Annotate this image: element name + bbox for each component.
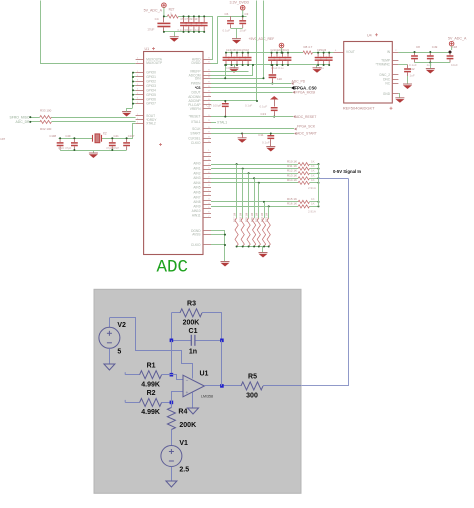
wire R3 left vertical (171, 313, 173, 341)
svg-text:C41: C41 (114, 134, 120, 138)
svg-text:C97 100pF: C97 100pF (207, 104, 222, 108)
svg-text:AIN9: AIN9 (193, 205, 200, 209)
svg-text:AIN2: AIN2 (193, 171, 200, 175)
capacitor C41 47pF (109, 138, 116, 150)
svg-text:XTAL2: XTAL2 (146, 122, 156, 126)
wire ADCOM up (211, 65, 253, 76)
svg-text:R12 1K: R12 1K (287, 168, 297, 172)
svg-text:3.3V_DVDD: 3.3V_DVDD (230, 0, 250, 4)
capacitor C10 (196, 16, 203, 32)
wire REF bus (226, 52, 303, 54)
svg-text:R32 100: R32 100 (40, 127, 52, 131)
wire noninverting input (172, 392, 183, 403)
svg-text:1K: 1K (311, 197, 315, 201)
U4 pin NC (392, 83, 398, 85)
svg-text:GPIO1: GPIO1 (146, 75, 156, 79)
capacitor C32 0.1uF (279, 53, 286, 65)
svg-text:GPIO0: GPIO0 (146, 71, 156, 75)
svg-text:C197: C197 (128, 134, 135, 138)
wire DVDD cluster rail (217, 16, 246, 18)
capacitor C49b 1uF (427, 52, 434, 63)
wire AIN row 1 (211, 168, 298, 170)
wire feedback to inverting input (171, 340, 173, 374)
svg-text:REF5040AIDGKT: REF5040AIDGKT (343, 105, 375, 110)
svg-text:AIN0: AIN0 (193, 162, 200, 166)
svg-text:AIN11: AIN11 (192, 214, 201, 218)
junction C1 right (220, 339, 224, 343)
svg-text:GND 47pF: GND 47pF (58, 146, 72, 150)
ground REF row right (316, 65, 318, 68)
capacitor C49 47pF (71, 138, 78, 150)
svg-text:−: − (186, 378, 189, 383)
svg-text:R22 1M: R22 1M (260, 213, 264, 222)
op-amp U1 LM358 (183, 375, 204, 397)
svg-text:1uF: 1uF (410, 74, 415, 78)
wire row 78 up to caps rail (225, 65, 227, 78)
ground U4 caps (430, 63, 432, 69)
svg-text:ADC_RESET: ADC_RESET (296, 115, 316, 119)
svg-text:C42: C42 (409, 67, 415, 71)
wire U4 GND to ground (399, 94, 400, 98)
svg-text:ADC_PD: ADC_PD (292, 80, 306, 84)
svg-text:5: 5 (117, 348, 121, 355)
svg-text:VREFN: VREFN (190, 107, 202, 111)
svg-text:*RESET: *RESET (189, 115, 201, 119)
svg-text:SFRO_MISO: SFRO_MISO (10, 115, 30, 119)
ground V1 (166, 481, 177, 487)
capacitor C20 0.1uF on ADC_PD (272, 65, 274, 74)
wire ADC_START (211, 133, 294, 135)
supply 5V_ADC_A right (449, 41, 454, 50)
svg-text:R11 1K: R11 1K (287, 164, 297, 168)
svg-text:GPIO7: GPIO7 (146, 102, 156, 106)
svg-text:AIN10: AIN10 (192, 209, 201, 213)
capacitor C33 0.1uF (285, 53, 292, 65)
IC U1 AIN pin stubs (192, 150, 211, 218)
IC U1 bottom-right pins DGND AVSS CLKIO (191, 229, 211, 247)
svg-text:AIN7: AIN7 (193, 195, 200, 199)
svg-text:5V_ADC_A: 5V_ADC_A (448, 36, 467, 40)
svg-text:1uF: 1uF (427, 63, 432, 67)
svg-text:U1: U1 (145, 47, 150, 51)
part origin cross U1 (159, 143, 162, 146)
wire AVDD down to pin (211, 17, 213, 60)
capacitor C197 DNP (123, 138, 130, 150)
U4 pin DNC_2 (392, 74, 398, 76)
junction noninverting node (170, 401, 174, 405)
wire U4 IN rail (398, 52, 451, 54)
resistor R4 200K (171, 402, 173, 407)
svg-text:0.1uF: 0.1uF (260, 105, 268, 109)
ground tie on ADC_START row (241, 133, 243, 135)
svg-text:R2: R2 (147, 390, 156, 397)
ground DVDD cluster (236, 28, 238, 39)
wire inverting input (172, 375, 183, 380)
wire AIN row 2 (211, 173, 298, 175)
svg-text:2.91A: 2.91A (308, 186, 316, 190)
resistor array R17-R23 pulldowns (235, 218, 270, 247)
capacitor C20 0.1uF (223, 53, 230, 65)
svg-text:+: + (186, 390, 189, 395)
resistor R11 1K (298, 167, 309, 170)
svg-text:R17 1M: R17 1M (232, 213, 236, 222)
svg-text:C21C22C23C24: C21C22C23C24 (271, 49, 290, 52)
U4 pin TRIM/NC (392, 64, 398, 66)
wires AIN drops to resistor array (237, 164, 269, 218)
svg-text:R14 1K: R14 1K (287, 178, 297, 182)
capacitor C40 0.1uF (315, 53, 322, 65)
crystal X2 (95, 134, 100, 143)
svg-text:0.1uF: 0.1uF (223, 29, 231, 33)
resistor R16 1K (298, 205, 309, 208)
gray panel (94, 289, 301, 493)
wire AIN row 4 (211, 182, 298, 184)
svg-text:0.1uF: 0.1uF (245, 104, 252, 108)
ground resistor array (262, 247, 264, 253)
resistor R3 200K (171, 312, 180, 314)
svg-text:GPIO2: GPIO2 (146, 80, 156, 84)
svg-text:R8 4.7: R8 4.7 (304, 45, 313, 49)
resistor R14 1K (298, 181, 309, 184)
svg-text:DVDD: DVDD (191, 61, 201, 65)
capacitor C42 1uF (404, 65, 411, 77)
svg-text:SCLK: SCLK (192, 127, 201, 131)
svg-text:+5V0_ADC_REF: +5V0_ADC_REF (249, 37, 275, 41)
svg-text:C197: C197 (0, 137, 6, 141)
label ADC_START (294, 132, 297, 135)
svg-text:AIN8: AIN8 (193, 200, 200, 204)
IC U4 REF5040 box (344, 42, 393, 104)
svg-text:C8: C8 (416, 45, 420, 49)
svg-text:R19 1M: R19 1M (244, 213, 248, 222)
junction output node (220, 384, 224, 388)
svg-text:DIN: DIN (195, 76, 201, 80)
wire MUXOUT from top-left (41, 1, 136, 64)
svg-text:C49: C49 (65, 134, 71, 138)
svg-text:1K: 1K (311, 168, 315, 172)
wire U4 caps bottom rail (415, 62, 451, 64)
svg-text:1n: 1n (189, 349, 197, 356)
svg-text:V1: V1 (179, 440, 188, 447)
label ADC_RESET (293, 115, 296, 118)
capacitor C41 0.1uF (320, 53, 327, 65)
IC U1 right pin stubs and names (188, 57, 211, 145)
capacitor C30 0.1uF (268, 53, 275, 65)
wire REF caps bottom rail (226, 64, 329, 66)
junction C1 left (170, 339, 174, 343)
resistor R8 4.7 (303, 51, 313, 54)
capacitor C5 (180, 16, 187, 32)
svg-text:C198: C198 (49, 134, 56, 138)
resistor R13 1K (298, 177, 309, 180)
resistor R33 100 (40, 116, 52, 119)
wire XTAL1 (211, 122, 216, 124)
svg-text:C4: C4 (155, 17, 159, 21)
wire AIN common vertical (318, 164, 320, 206)
svg-text:GPIO3: GPIO3 (146, 84, 156, 88)
svg-text:C11: C11 (258, 133, 264, 137)
ground C42 (407, 76, 409, 84)
wire feedback right vertical (221, 340, 223, 386)
svg-text:START: START (190, 132, 200, 136)
wire R3 right vertical (221, 313, 223, 341)
wire V2 to opamp V+ (110, 318, 193, 379)
capacitor C22 0.1uF (234, 53, 241, 65)
svg-text:0.1uF: 0.1uF (262, 141, 270, 145)
svg-text:CLKIO: CLKIO (191, 141, 201, 145)
wire AIN row 6 (211, 206, 298, 208)
svg-text:C49: C49 (432, 45, 438, 49)
wire AIN row 0 (211, 164, 298, 166)
ground C11 (266, 147, 275, 152)
ground GPIO tie (122, 112, 131, 117)
U4 pin DNC (392, 79, 398, 81)
capacitor C198 47pF (57, 138, 64, 150)
resistor R15 1K (298, 200, 309, 203)
svg-text:R20 1M: R20 1M (250, 213, 254, 222)
resistor R5 300 (241, 382, 263, 390)
svg-text:C18: C18 (452, 45, 458, 49)
svg-text:R23 1M: R23 1M (265, 213, 269, 222)
supply 5V_ADC_A top-left (162, 3, 167, 17)
IC U1 left pin stubs and names (136, 57, 163, 125)
wire AIN row 3 (211, 178, 298, 180)
wire net vertical from top 2 (211, 1, 257, 101)
svg-text:200K: 200K (179, 422, 196, 429)
capacitor C1 1n (171, 340, 191, 342)
svg-text:DOUT: DOUT (191, 90, 200, 94)
U4 pin VOUT (334, 52, 344, 54)
capacitor C6 0.1uF (227, 16, 234, 28)
svg-text:0-5V Signal In: 0-5V Signal In (333, 169, 362, 174)
capacitor C12 (201, 16, 208, 32)
svg-text:C1: C1 (189, 328, 198, 335)
svg-text:200K: 200K (183, 320, 200, 327)
svg-text:R3: R3 (187, 300, 196, 307)
wire opamp output (204, 385, 241, 387)
wire TRIM to C42 (398, 64, 407, 66)
ground U4 (395, 98, 404, 103)
svg-text:C5 C7 C9 C10: C5 C7 C9 C10 (181, 17, 198, 21)
svg-text:AIN1: AIN1 (193, 167, 200, 171)
svg-text:ADC: ADC (157, 258, 189, 278)
svg-text:R4: R4 (178, 409, 187, 416)
svg-text:1K: 1K (311, 174, 315, 178)
svg-text:C13: C13 (261, 112, 267, 116)
capacitor C21 0.1uF (228, 53, 235, 65)
wire AIN row 5 (211, 201, 298, 203)
capacitor C4 10uF (163, 16, 165, 22)
capacitor C9 (191, 16, 198, 32)
ground crystal (93, 150, 95, 153)
capacitor C42 0.1uF (326, 53, 333, 65)
U4 pin TEMP (392, 60, 398, 62)
svg-text:1K: 1K (311, 202, 315, 206)
wire DRDY row (30, 121, 40, 123)
svg-text:1K: 1K (311, 178, 315, 182)
svg-text:110: 110 (277, 77, 282, 81)
label FPGA_MOSI (293, 91, 296, 94)
supply ADC_REF (279, 43, 284, 52)
wire SOUT row (30, 117, 40, 119)
capacitor C31 0.1uF (274, 53, 281, 65)
svg-text:*TRIM/NC: *TRIM/NC (375, 63, 390, 67)
U4 pin GND (392, 93, 398, 95)
capacitor C24 0.1uF (245, 53, 252, 65)
svg-text:R13 1K: R13 1K (287, 174, 297, 178)
svg-text:10uF: 10uF (451, 63, 458, 67)
svg-text:R5: R5 (248, 374, 257, 381)
svg-text:2.5: 2.5 (179, 467, 189, 474)
wire FPGA_MOSI (211, 92, 293, 94)
svg-text:C14C15C16C17C18: C14C15C16C17C18 (226, 49, 250, 52)
wire opamp V- to ground (192, 393, 194, 409)
ground top-left cluster (174, 32, 176, 37)
resistor R12 1K (298, 172, 309, 175)
agnd symbol above C13 (270, 96, 279, 100)
svg-text:PWDN: PWDN (191, 82, 201, 86)
svg-text:R18 1M: R18 1M (239, 213, 243, 222)
voltage source V2 5 (109, 318, 111, 328)
junction inverting node (170, 373, 174, 377)
resistor R27 (167, 15, 178, 18)
wire GPIO tie vertical (132, 73, 134, 108)
svg-text:CLKIO: CLKIO (191, 243, 201, 247)
svg-text:CLKSEL: CLKSEL (188, 137, 200, 141)
wire R5 to edge (263, 385, 301, 387)
resistor R32 100 (40, 120, 52, 123)
svg-text:1K: 1K (311, 164, 315, 168)
svg-text:R1: R1 (147, 362, 156, 369)
svg-text:R10 1K: R10 1K (287, 159, 297, 163)
svg-text:ADC_DR: ADC_DR (16, 120, 30, 124)
svg-text:4.99K: 4.99K (141, 409, 160, 416)
ground DGND (221, 262, 230, 267)
resistor array labels (232, 213, 268, 222)
junction REF supply (281, 52, 283, 54)
wire DGND AVSS tie (211, 230, 225, 232)
capacitor C8 0.1uF (411, 52, 418, 63)
capacitor C18 10uF (447, 52, 454, 63)
svg-text:AIN4: AIN4 (193, 181, 200, 185)
U4 pin IN (392, 52, 398, 54)
svg-text:10uF: 10uF (240, 29, 247, 33)
ground REF row left (234, 65, 236, 68)
svg-text:X2: X2 (103, 132, 107, 136)
svg-text:2.91A: 2.91A (308, 209, 316, 213)
svg-text:R15 1K: R15 1K (287, 197, 297, 201)
wire XTAL up to pin (133, 124, 136, 139)
svg-text:R21 1M: R21 1M (255, 213, 259, 222)
wire ADC_RESET (211, 116, 293, 118)
wire DIN vertical from top (211, 1, 264, 79)
capacitor C3 10uF (239, 16, 246, 28)
capacitor C23 0.1uF (239, 53, 246, 65)
svg-text:VOUT: VOUT (346, 50, 355, 54)
svg-text:U4: U4 (367, 34, 372, 38)
svg-text:U1: U1 (200, 371, 209, 378)
svg-text:FPGA_MOSI: FPGA_MOSI (296, 90, 316, 94)
wire cap bottom rail top-left (164, 31, 204, 33)
svg-text:C25C26: C25C26 (317, 49, 327, 52)
svg-text:R16 1K: R16 1K (287, 202, 297, 206)
ground V2 (104, 364, 115, 370)
svg-text:R33 100: R33 100 (40, 109, 52, 113)
label FPGA_SCK (294, 128, 297, 131)
svg-text:GPIO5: GPIO5 (146, 93, 156, 97)
svg-text:GPIO6: GPIO6 (146, 97, 156, 101)
svg-text:LM/358: LM/358 (201, 394, 213, 398)
svg-text:AIN5: AIN5 (193, 186, 200, 190)
svg-text:MUXOUTP: MUXOUTP (146, 61, 162, 65)
svg-text:5V_ADC_A: 5V_ADC_A (144, 9, 163, 13)
voltage source V1 2.5 (161, 446, 182, 467)
wire FPGA_CS0 highlighted (211, 87, 291, 89)
resistor R2 4.99K (125, 402, 139, 404)
wire VREFP up (211, 71, 249, 73)
svg-text:XTAL1: XTAL1 (217, 120, 227, 124)
label FPGA_CS0 (291, 86, 294, 90)
svg-text:XTAL1: XTAL1 (191, 120, 201, 124)
svg-text:AIN6: AIN6 (193, 191, 200, 195)
svg-text:10uF: 10uF (147, 28, 154, 32)
wire crystal caps bottom (60, 150, 127, 152)
svg-text:GND: GND (383, 92, 391, 96)
wire ADC_PD (211, 83, 291, 85)
svg-text:C3: C3 (245, 12, 249, 16)
capacitor C7 (185, 16, 192, 32)
svg-text:AVSS: AVSS (192, 233, 200, 237)
wire blue signal interconnect (319, 178, 349, 180)
svg-text:V2: V2 (117, 322, 126, 329)
svg-text:AIN3: AIN3 (193, 176, 200, 180)
svg-text:4.99K: 4.99K (141, 382, 160, 389)
wire DVDD down to pin (211, 17, 218, 64)
resistor R1 4.99K (125, 374, 139, 376)
svg-text:300: 300 (246, 393, 258, 400)
svg-text:1K: 1K (311, 159, 315, 163)
svg-text:C6: C6 (225, 12, 229, 16)
svg-text:FPGA_SCK: FPGA_SCK (297, 125, 316, 129)
svg-text:GPIO4: GPIO4 (146, 88, 156, 92)
resistor R10 1K (298, 163, 309, 166)
wire crystal rail (59, 138, 94, 140)
supply 3.3V_DVDD (240, 6, 245, 19)
wire FPGA_SCK (211, 128, 294, 130)
wire DVDD cluster bottom (231, 28, 243, 30)
ground opamp (188, 408, 199, 414)
svg-text:ADC_START: ADC_START (297, 132, 317, 136)
IC U1 ADC box (144, 52, 203, 255)
svg-text:NC: NC (385, 82, 390, 86)
wire resistor array bottom rail (237, 246, 269, 248)
wire AVDD rail top-left (164, 16, 167, 18)
